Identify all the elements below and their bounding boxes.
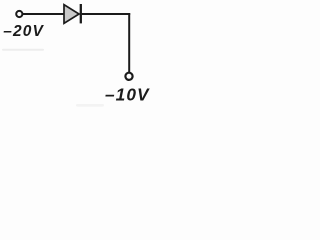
diode D1: [64, 4, 81, 23]
terminal (input): [16, 11, 22, 17]
wire: [23, 13, 64, 15]
svg-text:–20V: –20V: [3, 23, 44, 40]
wire: [82, 13, 130, 15]
wire: [128, 13, 130, 72]
svg-text:–10V: –10V: [105, 85, 150, 105]
terminal (output): [125, 73, 132, 80]
